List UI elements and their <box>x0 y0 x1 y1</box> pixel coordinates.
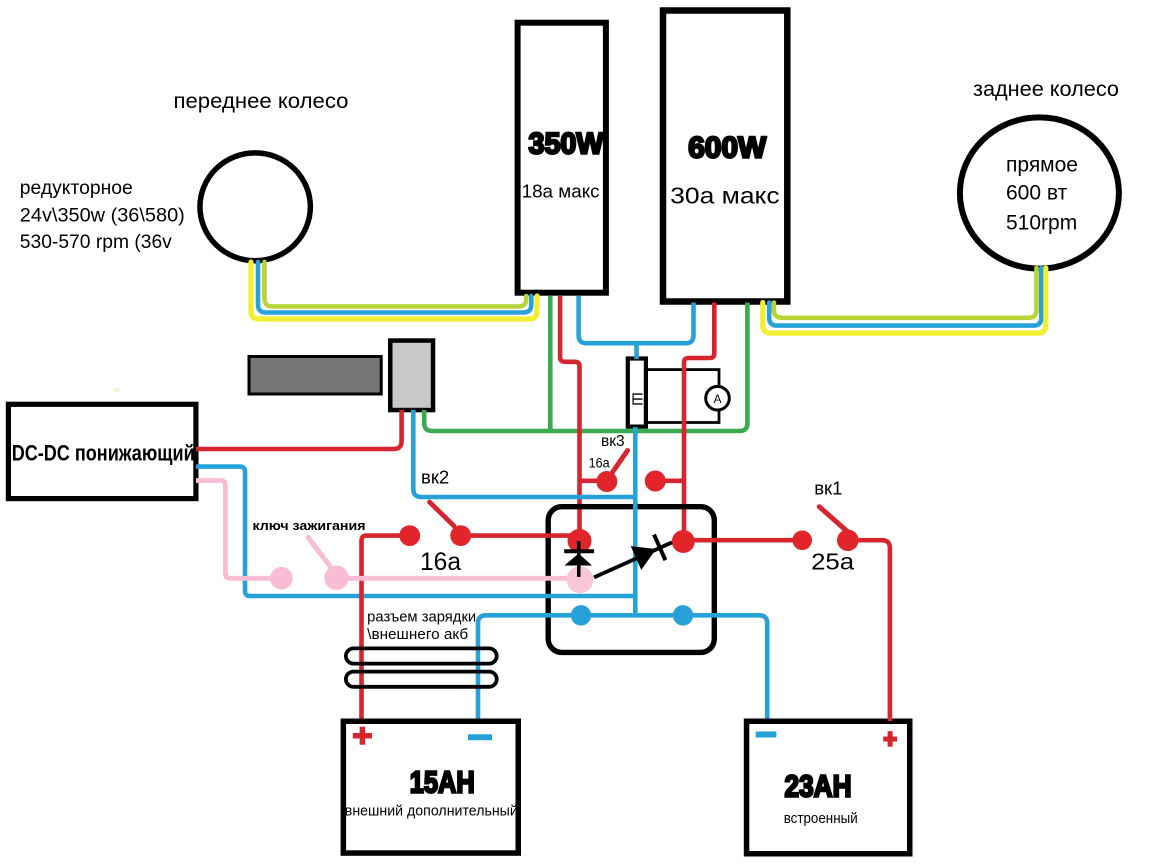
wire green stub 350W <box>548 296 553 431</box>
switch vk3 contacts <box>596 471 617 492</box>
svg-text:510rpm: 510rpm <box>1006 211 1077 234</box>
svg-text:DC-DC понижающий: DC-DC понижающий <box>12 441 195 466</box>
wire red relay to vk1 <box>683 538 801 543</box>
battery 23AH box <box>747 721 910 854</box>
wire red vk1 to battery 23AH <box>847 540 890 721</box>
wire front bundle blue <box>258 262 531 313</box>
svg-text:ключ зажигания: ключ зажигания <box>253 518 366 533</box>
battery 15AH plus terminal <box>353 727 372 745</box>
charge connector bottom shell <box>346 672 497 687</box>
wire blue shunt stub <box>634 343 639 359</box>
wire front bundle yellow <box>251 262 537 319</box>
diode D2 diagonal <box>594 535 672 578</box>
wire green ground bus <box>424 303 747 432</box>
wire red vk3 stub right <box>655 478 684 483</box>
wire front bundle yellow-green <box>265 262 527 307</box>
relay node red right <box>672 530 695 553</box>
svg-text:23АН: 23АН <box>785 769 852 804</box>
switch vk2 lever <box>430 502 455 526</box>
svg-text:25а: 25а <box>811 549 854 575</box>
ammeter loop <box>646 370 719 423</box>
relay node blue right <box>673 605 693 625</box>
svg-text:24v\350w (36\580): 24v\350w (36\580) <box>20 205 185 227</box>
svg-text:600 вт: 600 вт <box>1006 182 1068 205</box>
battery 23AH minus terminal <box>756 732 777 738</box>
charge connector label <box>367 610 476 644</box>
relay junction box <box>548 507 714 653</box>
wire rear bundle yellow <box>763 268 1046 333</box>
wire blue link 350W-600W <box>579 296 694 343</box>
ignition key switch contacts <box>270 567 293 590</box>
svg-text:30а макс: 30а макс <box>670 183 780 209</box>
svg-text:16а: 16а <box>420 548 461 576</box>
wire pink DC-DC to ignition key <box>196 481 272 579</box>
svg-text:А: А <box>713 392 721 406</box>
front wheel motor <box>200 153 310 261</box>
wire blue throttle to relay <box>413 410 635 497</box>
wire rear bundle blue <box>769 268 1041 326</box>
svg-text:вк2: вк2 <box>421 467 449 488</box>
svg-text:заднее колесо: заднее колесо <box>973 78 1119 101</box>
wire red 600W to relay <box>684 303 714 542</box>
wire blue relay vertical <box>633 427 638 615</box>
charge connector top shell <box>346 648 497 663</box>
wire red vk2 left to battery <box>362 536 410 719</box>
switch vk1 contacts <box>792 531 812 551</box>
controller U1 350W box <box>518 23 606 293</box>
relay node pink <box>567 566 594 593</box>
svg-text:15АН: 15АН <box>410 765 475 800</box>
wire blue battery bottom bus <box>478 615 767 718</box>
relay node blue left <box>571 605 591 625</box>
svg-text:600W: 600W <box>688 132 767 165</box>
ammeter A <box>706 386 730 410</box>
battery 15AH box <box>343 721 518 853</box>
relay node red left <box>568 529 592 553</box>
svg-text:встроенный: встроенный <box>784 811 858 827</box>
wire red 350W to relay <box>560 296 579 541</box>
svg-text:редукторное: редукторное <box>20 177 133 199</box>
svg-text:внешний дополнительный: внешний дополнительный <box>345 804 518 820</box>
svg-text:Ш: Ш <box>629 392 646 406</box>
wire red DC-DC to throttle <box>196 410 402 449</box>
rear wheel motor <box>960 117 1119 268</box>
shunt Sh box <box>628 359 646 427</box>
paint speck artifact <box>113 387 120 392</box>
wire blue DC-DC to relay <box>196 467 635 596</box>
switch vk3 lever <box>608 451 628 480</box>
wire red vk3 stub left <box>580 478 607 483</box>
svg-text:\внешнего акб: \внешнего акб <box>367 627 468 643</box>
svg-text:350W: 350W <box>529 128 605 161</box>
diode D1 vertical <box>564 541 594 577</box>
battery 23AH plus terminal <box>883 731 897 747</box>
svg-text:16а: 16а <box>589 456 610 471</box>
throttle connector box <box>390 341 433 411</box>
wire pink ignition to relay <box>345 576 570 581</box>
battery 15AH minus terminal <box>468 734 492 740</box>
throttle dark body <box>249 357 381 395</box>
svg-text:прямое: прямое <box>1006 154 1078 177</box>
ignition key lever <box>308 538 330 567</box>
front wheel spec label <box>20 177 185 253</box>
svg-text:18а макс: 18а макс <box>522 181 600 202</box>
switch vk2 contacts <box>399 525 420 546</box>
svg-text:переднее колесо: переднее колесо <box>174 90 349 113</box>
svg-text:вк1: вк1 <box>814 478 842 499</box>
switch vk1 lever <box>819 507 848 532</box>
controller U2 600W box <box>663 11 787 302</box>
svg-text:530-570 rpm (36v: 530-570 rpm (36v <box>20 231 172 253</box>
DC-DC converter box <box>8 404 196 498</box>
svg-text:разъем зарядки: разъем зарядки <box>367 610 476 626</box>
svg-text:вк3: вк3 <box>601 433 625 450</box>
wire rear bundle yellow-green <box>774 268 1037 318</box>
wire red vk2 to relay node <box>461 533 580 538</box>
